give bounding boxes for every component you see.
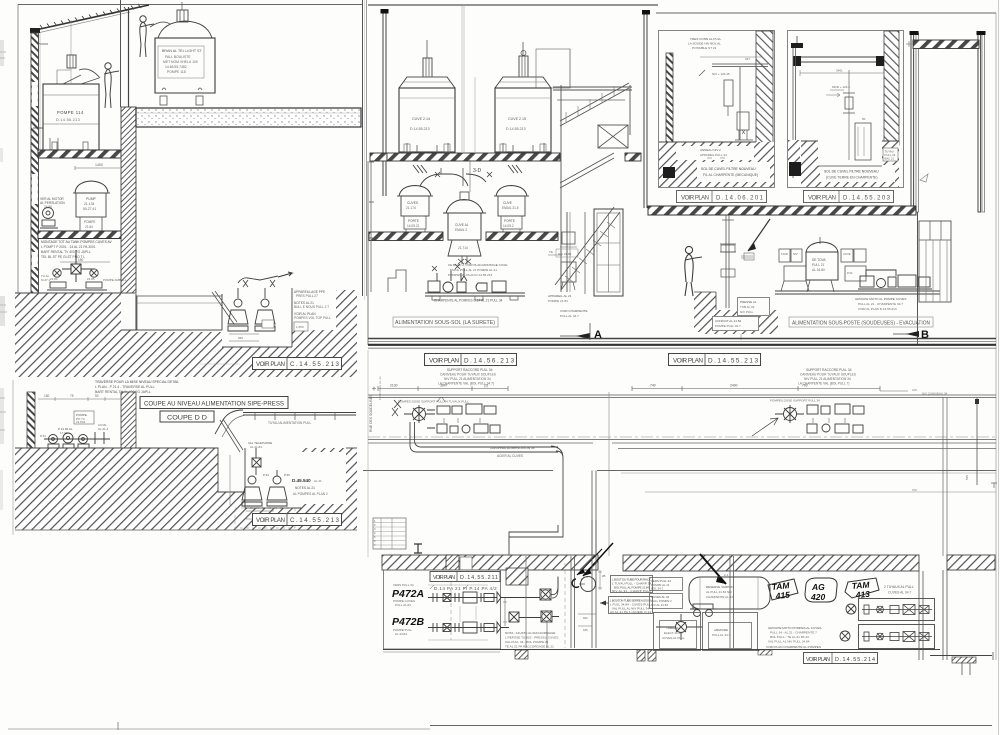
svg-text:2.1: 2.1 — [724, 573, 729, 577]
svg-text:CUVE 2.14: CUVE 2.14 — [412, 117, 430, 121]
backdrop wall tank M2 — [536, 49, 570, 88]
svg-text:D.14.55.213: D.14.55.213 — [506, 127, 526, 131]
svg-text:P.34: P.34 — [263, 473, 269, 477]
ground hatch d1 — [659, 142, 774, 187]
svg-text:AL PULL 21.84 NIV: AL PULL 21.84 NIV — [706, 590, 732, 594]
left stripe column d1 — [666, 53, 673, 172]
big arrow right — [700, 554, 726, 584]
svg-text:CANIVEAU POUR TUYAUX SOUPLES: CANIVEAU POUR TUYAUX SOUPLES — [800, 373, 856, 377]
svg-text:CUVES: CUVES — [407, 201, 418, 205]
border frame top — [18, 4, 362, 6]
pit dims lower — [246, 510, 274, 512]
sloped roof — [31, 5, 149, 31]
tank L1 chimney — [70, 20, 72, 55]
text zone white — [292, 288, 336, 330]
voir plan box white — [252, 357, 342, 370]
floor slab 2 segments — [369, 232, 443, 241]
svg-text:BAC 21: BAC 21 — [885, 157, 895, 161]
white pit — [218, 448, 245, 492]
svg-text:POMPES VOL TOP PULL: POMPES VOL TOP PULL — [294, 316, 331, 320]
svg-text:CONDUIT AL 21.84: CONDUIT AL 21.84 — [715, 319, 742, 323]
svg-text:ALIMENTATION SOUS-SOL (LA SUR: ALIMENTATION SOUS-SOL (LA SURETE) — [395, 320, 495, 326]
svg-text:RUE DES SOUDEUSES: RUE DES SOUDEUSES — [369, 394, 373, 432]
svg-text:LA SOUDE NIV BOL AL: LA SOUDE NIV BOL AL — [688, 42, 721, 46]
svg-text:PORTE: PORTE — [408, 219, 419, 223]
pump room rows — [859, 599, 935, 621]
L-duct from left gallery — [410, 422, 558, 452]
big arrows left — [583, 543, 613, 576]
svg-text:BULL E NOUS PULL 2 T: BULL E NOUS PULL 2 T — [294, 305, 329, 309]
svg-text:EMAIL PULL AL 21 POMPE AL 21: EMAIL PULL AL 21 POMPE AL 21 — [450, 268, 497, 272]
svg-text:APPAREIL AL 21: APPAREIL AL 21 — [548, 294, 572, 298]
center vessel right drawing — [819, 237, 821, 244]
horizontal tank — [689, 577, 770, 609]
svg-text:· ·: · · — [383, 532, 386, 535]
tank M2 stack — [522, 42, 524, 56]
svg-text:CUVES AL PULL: CUVES AL PULL — [662, 636, 685, 640]
svg-text:ACIER AL CUVES: ACIER AL CUVES — [497, 454, 523, 458]
TAM 413 — [845, 578, 879, 598]
platform beams right — [553, 87, 632, 90]
svg-text:D.14.55.203: D.14.55.203 — [843, 196, 891, 202]
floor slab 1 segments — [370, 153, 387, 161]
svg-text:1.050: 1.050 — [296, 325, 304, 329]
text box 2 — [609, 597, 653, 614]
svg-text:C.14.55.213: C.14.55.213 — [290, 517, 340, 524]
outlines lower — [15, 448, 302, 508]
vertical pipe with valves — [726, 215, 729, 308]
svg-text:PULL AL 34.7: PULL AL 34.7 — [560, 314, 579, 318]
svg-text:ELECT 21.84: ELECT 21.84 — [664, 631, 682, 635]
top border right — [656, 12, 996, 14]
wall footing pad — [26, 316, 37, 325]
svg-text:CANIVEAU AL 21: CANIVEAU AL 21 — [378, 376, 382, 400]
right dome vessel — [496, 186, 527, 197]
svg-text:NIV PULL: NIV PULL — [740, 310, 754, 314]
ground mass lower band — [121, 330, 357, 377]
ground mass left — [15, 293, 121, 377]
pipe d1 — [712, 64, 768, 67]
text box 1 right of loop — [611, 576, 653, 593]
svg-text:PULL AL 34.7: PULL AL 34.7 — [712, 633, 731, 637]
floor slab level2 (striped) — [38, 231, 121, 239]
level3 valve cross — [62, 250, 95, 282]
svg-text:GROUPE MOTO POMPES AL CUVES: GROUPE MOTO POMPES AL CUVES — [768, 626, 821, 630]
hose from person to tank — [150, 22, 170, 27]
pipe loop — [581, 577, 596, 592]
svg-text:TRES CONN AL PULL: TRES CONN AL PULL — [690, 37, 721, 41]
section B marker — [893, 333, 917, 335]
I-beam mark — [414, 544, 422, 553]
pump unit 2 — [255, 288, 275, 331]
left stripe wall — [27, 392, 35, 470]
svg-text:D.14.55.211: D.14.55.211 — [460, 575, 498, 581]
pump unit 1 — [228, 288, 248, 331]
svg-text:14.05.2: 14.05.2 — [503, 224, 514, 228]
right gallery voir plan box — [669, 354, 761, 366]
text box small d2 — [883, 148, 898, 161]
top wall band left — [382, 555, 598, 570]
svg-text:21.174: 21.174 — [406, 206, 416, 210]
svg-text:VOIR PLAN CHARPENTE AL POMPES: VOIR PLAN CHARPENTE AL POMPES — [766, 645, 821, 649]
svg-text:415: 415 — [774, 590, 790, 602]
center vessel chimney — [460, 192, 469, 200]
right stack boxes — [841, 249, 866, 281]
svg-text:TANK: TANK — [781, 252, 788, 256]
faint fold line between left and mid — [364, 0, 366, 300]
stepped platform left — [388, 270, 406, 292]
svg-text:BART RENTAL TV 400 FO JAPLL: BART RENTAL TV 400 FO JAPLL — [41, 250, 91, 254]
svg-text:POMPES DOSE SUPPORT PULL 34: POMPES DOSE SUPPORT PULL 34 TUYAUX PULL — [398, 400, 469, 404]
ground mass lower detail — [15, 448, 218, 530]
svg-text:2130: 2130 — [390, 384, 398, 388]
svg-text:940: 940 — [583, 616, 588, 620]
right gallery equipment — [752, 404, 864, 436]
svg-text:CANIVEAU POUR TUYAUX SOUPLES: CANIVEAU POUR TUYAUX SOUPLES — [440, 373, 496, 377]
small marks left of voir box — [200, 363, 240, 365]
svg-text:PALL BOULISTE: PALL BOULISTE — [165, 55, 191, 59]
flange C — [572, 579, 579, 587]
tank M2 top — [495, 77, 551, 88]
long bottom rule — [8, 728, 430, 730]
svg-text:50.27.41: 50.27.41 — [83, 207, 96, 211]
svg-text:TRAVERSE POUR LA MISE NIVEAU S: TRAVERSE POUR LA MISE NIVEAU SPECIAL DET… — [95, 380, 179, 384]
AG 420 — [805, 578, 837, 602]
tank M1 stack — [426, 40, 428, 58]
svg-text:NOTA : AJUSTE AU RACCORDAGE: NOTA : AJUSTE AU RACCORDAGE — [505, 631, 555, 635]
svg-text:FIL AL CHARPENTE (MECANIQUE): FIL AL CHARPENTE (MECANIQUE) — [703, 173, 758, 177]
left stack boxes — [779, 249, 809, 291]
left edge lower wall — [368, 161, 371, 345]
tank L1 body — [43, 84, 99, 150]
room pumps — [44, 432, 110, 448]
voir plan box d1 — [677, 191, 767, 203]
svg-text:COUPE D D: COUPE D D — [167, 415, 207, 422]
svg-text:21.134: 21.134 — [84, 202, 94, 206]
svg-text:NOTES AL 21: NOTES AL 21 — [295, 486, 315, 490]
top rail double line — [368, 395, 996, 398]
svg-text:C.14.55.213: C.14.55.213 — [290, 361, 340, 368]
svg-text:PULL 21: PULL 21 — [812, 263, 825, 267]
svg-text:·: · — [394, 528, 395, 531]
svg-text:50: 50 — [95, 394, 99, 398]
center dome vessel — [446, 200, 483, 214]
svg-text:D.14.55.213: D.14.55.213 — [708, 358, 758, 365]
svg-text:NIV PULL 21 ALIMENTATION 34: NIV PULL 21 ALIMENTATION 34 — [444, 377, 491, 381]
svg-text:AL 21.84: AL 21.84 — [250, 445, 262, 449]
svg-text:TABLEAU: TABLEAU — [666, 626, 679, 630]
svg-text:545: 545 — [965, 475, 969, 480]
svg-text:21.84: 21.84 — [50, 277, 58, 281]
vessel d1 — [724, 80, 733, 106]
svg-text:PUMP: PUMP — [86, 197, 97, 201]
svg-text:14.65.55.7482: 14.65.55.7482 — [165, 65, 187, 69]
svg-text:APPAREIL PULL 34: APPAREIL PULL 34 — [700, 153, 727, 157]
voir plan box upper — [253, 358, 342, 370]
discharge under center vessel — [462, 256, 467, 264]
svg-text:PRESSE AL: PRESSE AL — [740, 300, 757, 304]
svg-text:D.14 PA 21 PI P.14 PA 4/2: D.14 PA 21 PI P.14 PA 4/2 — [434, 586, 497, 591]
svg-text:VOIR PLAN: VOIR PLAN — [806, 657, 830, 663]
svg-text:420: 420 — [810, 592, 825, 602]
tank outline in pit — [137, 296, 222, 330]
svg-text:VOIR AL PLAN D.14.55.213: VOIR AL PLAN D.14.55.213 — [858, 307, 897, 311]
svg-text:347: 347 — [745, 57, 750, 61]
pipes above pumps — [238, 276, 278, 283]
roof support column — [120, 0, 122, 107]
roof hatch ticks — [40, 4, 141, 29]
dim d2 — [800, 72, 884, 74]
svg-text:L REPOSE TUBES - PRESSU CUVES: L REPOSE TUBES - PRESSU CUVES — [505, 636, 558, 640]
room equipment: text box — [74, 411, 94, 424]
svg-text:EMAIL 21.5: EMAIL 21.5 — [502, 206, 519, 210]
top wall band right — [623, 555, 919, 571]
svg-text:POMPE 114: POMPE 114 — [57, 110, 84, 115]
svg-text:VOIR CHARPENTE: VOIR CHARPENTE — [560, 309, 588, 313]
center pipe between tanks — [462, 6, 464, 152]
right gallery dim — [632, 388, 880, 390]
svg-text:P.34: P.34 — [40, 434, 46, 438]
svg-text:L POMPT P 2001 - 14 AL 21 PA 3: L POMPT P 2001 - 14 AL 21 PA 3001 — [41, 245, 96, 249]
dashed column ref — [60, 450, 120, 497]
svg-text:B: B — [921, 329, 929, 341]
svg-text:VOIR PLAN: VOIR PLAN — [681, 196, 709, 202]
ground multiline band — [368, 338, 996, 340]
svg-text:ARMOIRE: ARMOIRE — [714, 628, 728, 632]
svg-text:MET NOM VHELU 100: MET NOM VHELU 100 — [163, 60, 198, 64]
svg-text:940: 940 — [238, 336, 243, 340]
svg-text:NIV PULL 21 ALIMENTATION 34: NIV PULL 21 ALIMENTATION 34 — [804, 377, 851, 381]
svg-text:AL 34.84: AL 34.84 — [812, 268, 825, 272]
ground hatch d2 — [801, 141, 899, 187]
svg-text:(2): (2) — [484, 384, 488, 388]
center divider dashed — [608, 392, 610, 556]
dim marks at pit — [229, 333, 259, 335]
room ceiling dim — [38, 398, 120, 400]
faint marks right of left drawing — [906, 41, 912, 47]
room outline below — [363, 470, 996, 472]
arrow into pit — [748, 219, 770, 251]
tank pit white — [136, 294, 222, 332]
voir plan box d2 — [804, 191, 894, 203]
voir plan box bottom right — [804, 653, 878, 664]
svg-text:NIV AL 34 - CHARP PULL: NIV AL 34 - CHARP PULL — [612, 589, 651, 593]
level3 pumps — [47, 269, 107, 290]
svg-text:VOIR PLAN: VOIR PLAN — [429, 358, 459, 365]
vertical drop pipe at x526/x547 — [525, 556, 527, 648]
level2 dim line — [75, 166, 120, 170]
right panel — [919, 221, 951, 302]
svg-text:D.14.55.214: D.14.55.214 — [835, 657, 875, 663]
svg-text:VOIR PLAN: VOIR PLAN — [808, 196, 836, 202]
pit right drawing — [694, 292, 716, 332]
3-D mark — [469, 160, 471, 192]
train B — [428, 622, 501, 633]
svg-text:MONTAGE TOT AU TANK POMPES CUV: MONTAGE TOT AU TANK POMPES CUVES AV — [41, 240, 112, 244]
pipe manifold arcs — [420, 174, 468, 186]
svg-text:P472B: P472B — [392, 616, 425, 628]
dashed centerline — [564, 563, 566, 648]
svg-text:3461: 3461 — [836, 69, 843, 73]
svg-text:PRES PULL 27: PRES PULL 27 — [296, 294, 318, 298]
room floor line — [775, 291, 940, 294]
svg-text:VAL PULL AL NIV PULL 34.84: VAL PULL AL NIV PULL 34.84 — [768, 640, 810, 644]
gutter mark — [36, 36, 48, 44]
svg-text:POMPE PULL 34.7: POMPE PULL 34.7 — [715, 324, 741, 328]
svg-text:1450: 1450 — [95, 163, 103, 167]
svg-text:2 TUYAUX AL PULL: 2 TUYAUX AL PULL — [884, 585, 914, 589]
svg-text:150: 150 — [44, 394, 50, 398]
svg-text:TE: TE — [549, 250, 553, 254]
svg-text:50: 50 — [862, 117, 866, 121]
bottom edge line — [15, 529, 357, 531]
svg-text:POMPE 21.84: POMPE 21.84 — [548, 299, 568, 303]
svg-text:GROUPE MOTO AL POMPE CUVES: GROUPE MOTO AL POMPE CUVES — [855, 297, 906, 301]
title box 1 — [140, 397, 288, 409]
person P3 — [685, 246, 702, 296]
svg-text:(2) AL 21 PA 4 (ACIER) D.14: (2) AL 21 PA 4 (ACIER) D.14 — [610, 610, 651, 614]
pump unit 1 lower — [242, 476, 262, 506]
train A — [428, 592, 501, 603]
left text boxes — [650, 578, 683, 591]
right building column — [362, 0, 364, 296]
stair posts — [561, 85, 630, 292]
svg-text:AL POMPES AL PLAN 2: AL POMPES AL PLAN 2 — [293, 492, 328, 496]
left wall (striped) — [31, 33, 39, 295]
svg-text:M.27.1: M.27.1 — [41, 278, 51, 282]
svg-text:CUVE: CUVE — [503, 201, 512, 205]
svg-text:DE TOVA: DE TOVA — [812, 258, 827, 262]
right column vessels — [566, 212, 568, 292]
cross valves left of rows — [656, 604, 856, 641]
left wall lines d2 — [793, 48, 796, 178]
pump skid basement — [425, 293, 525, 296]
right column — [644, 12, 647, 208]
left column — [383, 11, 386, 196]
svg-text:AG: AG — [811, 582, 825, 592]
right page edge faint — [998, 0, 1000, 735]
person P2 on platform — [140, 16, 154, 57]
center connectors — [500, 577, 559, 628]
voir plan box lower — [252, 513, 342, 526]
panels below — [654, 613, 701, 651]
tank L1 feet nozzles — [50, 138, 58, 150]
svg-text:·: · — [394, 524, 395, 527]
TAM 415 — [768, 579, 798, 600]
small text above pit lower — [251, 455, 253, 457]
ground wall right block — [336, 290, 357, 334]
voir plan box gallery left — [425, 354, 517, 366]
svg-text:D.14.55.213: D.14.55.213 — [56, 118, 80, 122]
svg-text:D.45.540: D.45.540 — [292, 478, 311, 483]
svg-text:21.714: 21.714 — [458, 246, 468, 250]
svg-text:CUVE 2.15: CUVE 2.15 — [508, 117, 526, 121]
level3 dim — [60, 261, 110, 263]
inclined pipe into pit — [212, 291, 237, 324]
svg-text:14.05.21: 14.05.21 — [407, 224, 420, 228]
stair flight mid — [560, 153, 614, 188]
svg-text:SOL DE CUVEL FILTRE NOUVEAU: SOL DE CUVEL FILTRE NOUVEAU — [824, 170, 879, 174]
svg-text:SUPPORT RACCORD PULL 34: SUPPORT RACCORD PULL 34 — [806, 368, 852, 372]
svg-text:D.14.06.201: D.14.06.201 — [716, 196, 764, 202]
svg-text:NIV CANIVEAU 34: NIV CANIVEAU 34 — [922, 392, 948, 396]
left gallery equipment — [392, 404, 500, 433]
svg-text:AL 34.84: AL 34.84 — [395, 632, 407, 636]
outlines — [15, 293, 222, 330]
pump skid far right — [858, 270, 932, 289]
svg-text:RESERVE TAMPON: RESERVE TAMPON — [706, 585, 734, 589]
svg-text:185: 185 — [583, 628, 588, 632]
svg-text:·: · — [394, 536, 395, 539]
svg-text:· ·: · · — [383, 524, 386, 527]
person P1 — [104, 63, 119, 108]
svg-text:SUPPORT RACCORD PULL 34: SUPPORT RACCORD PULL 34 — [447, 368, 493, 372]
svg-text:ANNEAU NIV 2: ANNEAU NIV 2 — [700, 148, 721, 152]
svg-text:TUYAU ALIMENTATION PULL: TUYAU ALIMENTATION PULL — [268, 421, 311, 425]
tank L2 dome — [158, 21, 212, 38]
left schedule table — [373, 518, 406, 549]
top border — [368, 4, 658, 6]
tank M1 nozzles — [407, 143, 448, 152]
right hatch wall d2 — [884, 31, 899, 145]
room right wall hatch — [121, 392, 136, 449]
svg-text:(CUVE TERRE EN CHARPENTE): (CUVE TERRE EN CHARPENTE) — [826, 176, 878, 180]
svg-text:POMPES AL PLAN D.14.55.213: POMPES AL PLAN D.14.55.213 — [448, 273, 493, 277]
tank L2 chimney — [177, 10, 188, 22]
svg-text:EMAIL 2: EMAIL 2 — [455, 228, 467, 232]
dim small near loop — [598, 570, 602, 590]
vertical pipe through — [730, 556, 734, 648]
stair flight low — [555, 207, 620, 290]
right columns — [919, 571, 923, 660]
svg-text:PULL 34 - AL 21 - CHARPENTE 7: PULL 34 - AL 21 - CHARPENTE 7 — [770, 631, 817, 635]
elevated concrete slab with stipple — [136, 108, 361, 127]
svg-text:TUB AL 34: TUB AL 34 — [740, 305, 755, 309]
right hatch wall d1 — [756, 31, 773, 143]
svg-text:PULL AL 21 - CHARPENTE 34.7: PULL AL 21 - CHARPENTE 34.7 — [858, 302, 903, 306]
arrow left of tank — [33, 127, 43, 129]
svg-text:BOL 34.7: BOL 34.7 — [651, 587, 663, 591]
voir plan box bd — [430, 572, 500, 582]
svg-text:VOIR PLAN: VOIR PLAN — [256, 517, 285, 524]
svg-text:CHARPENTE AL 34: CHARPENTE AL 34 — [706, 595, 733, 599]
left faint border — [12, 380, 14, 535]
cross braced panel — [598, 125, 628, 148]
svg-text:POMPE AMBULL: POMPE AMBULL — [103, 278, 127, 282]
bottom floor line right — [660, 649, 940, 651]
roof left cap — [30, 28, 40, 33]
svg-text:790: 790 — [802, 384, 808, 388]
svg-text:740: 740 — [650, 384, 656, 388]
hatch arrows below slab — [413, 165, 427, 173]
center line + vessel d2 — [848, 70, 850, 160]
svg-text:· ·: · · — [383, 528, 386, 531]
section A marker — [560, 335, 588, 337]
left dome vessel — [399, 186, 431, 197]
stair flight top — [560, 83, 629, 126]
mid wall (dense hatch) — [121, 107, 136, 293]
svg-text:NIV 21.84: NIV 21.84 — [558, 252, 572, 256]
bottom rail lines — [368, 439, 996, 441]
svg-text:BOL PULL - TE AL 21 PA 44: BOL PULL - TE AL 21 PA 44 — [770, 635, 809, 639]
svg-text:AL 21.4: AL 21.4 — [98, 427, 109, 431]
svg-text:VOIR PLAN: VOIR PLAN — [256, 361, 285, 368]
door — [594, 209, 623, 296]
pump pit floor — [222, 288, 292, 347]
valve cross lower — [252, 448, 261, 475]
svg-text:D.14.55.213: D.14.55.213 — [410, 127, 430, 131]
dims between trains — [503, 598, 507, 626]
